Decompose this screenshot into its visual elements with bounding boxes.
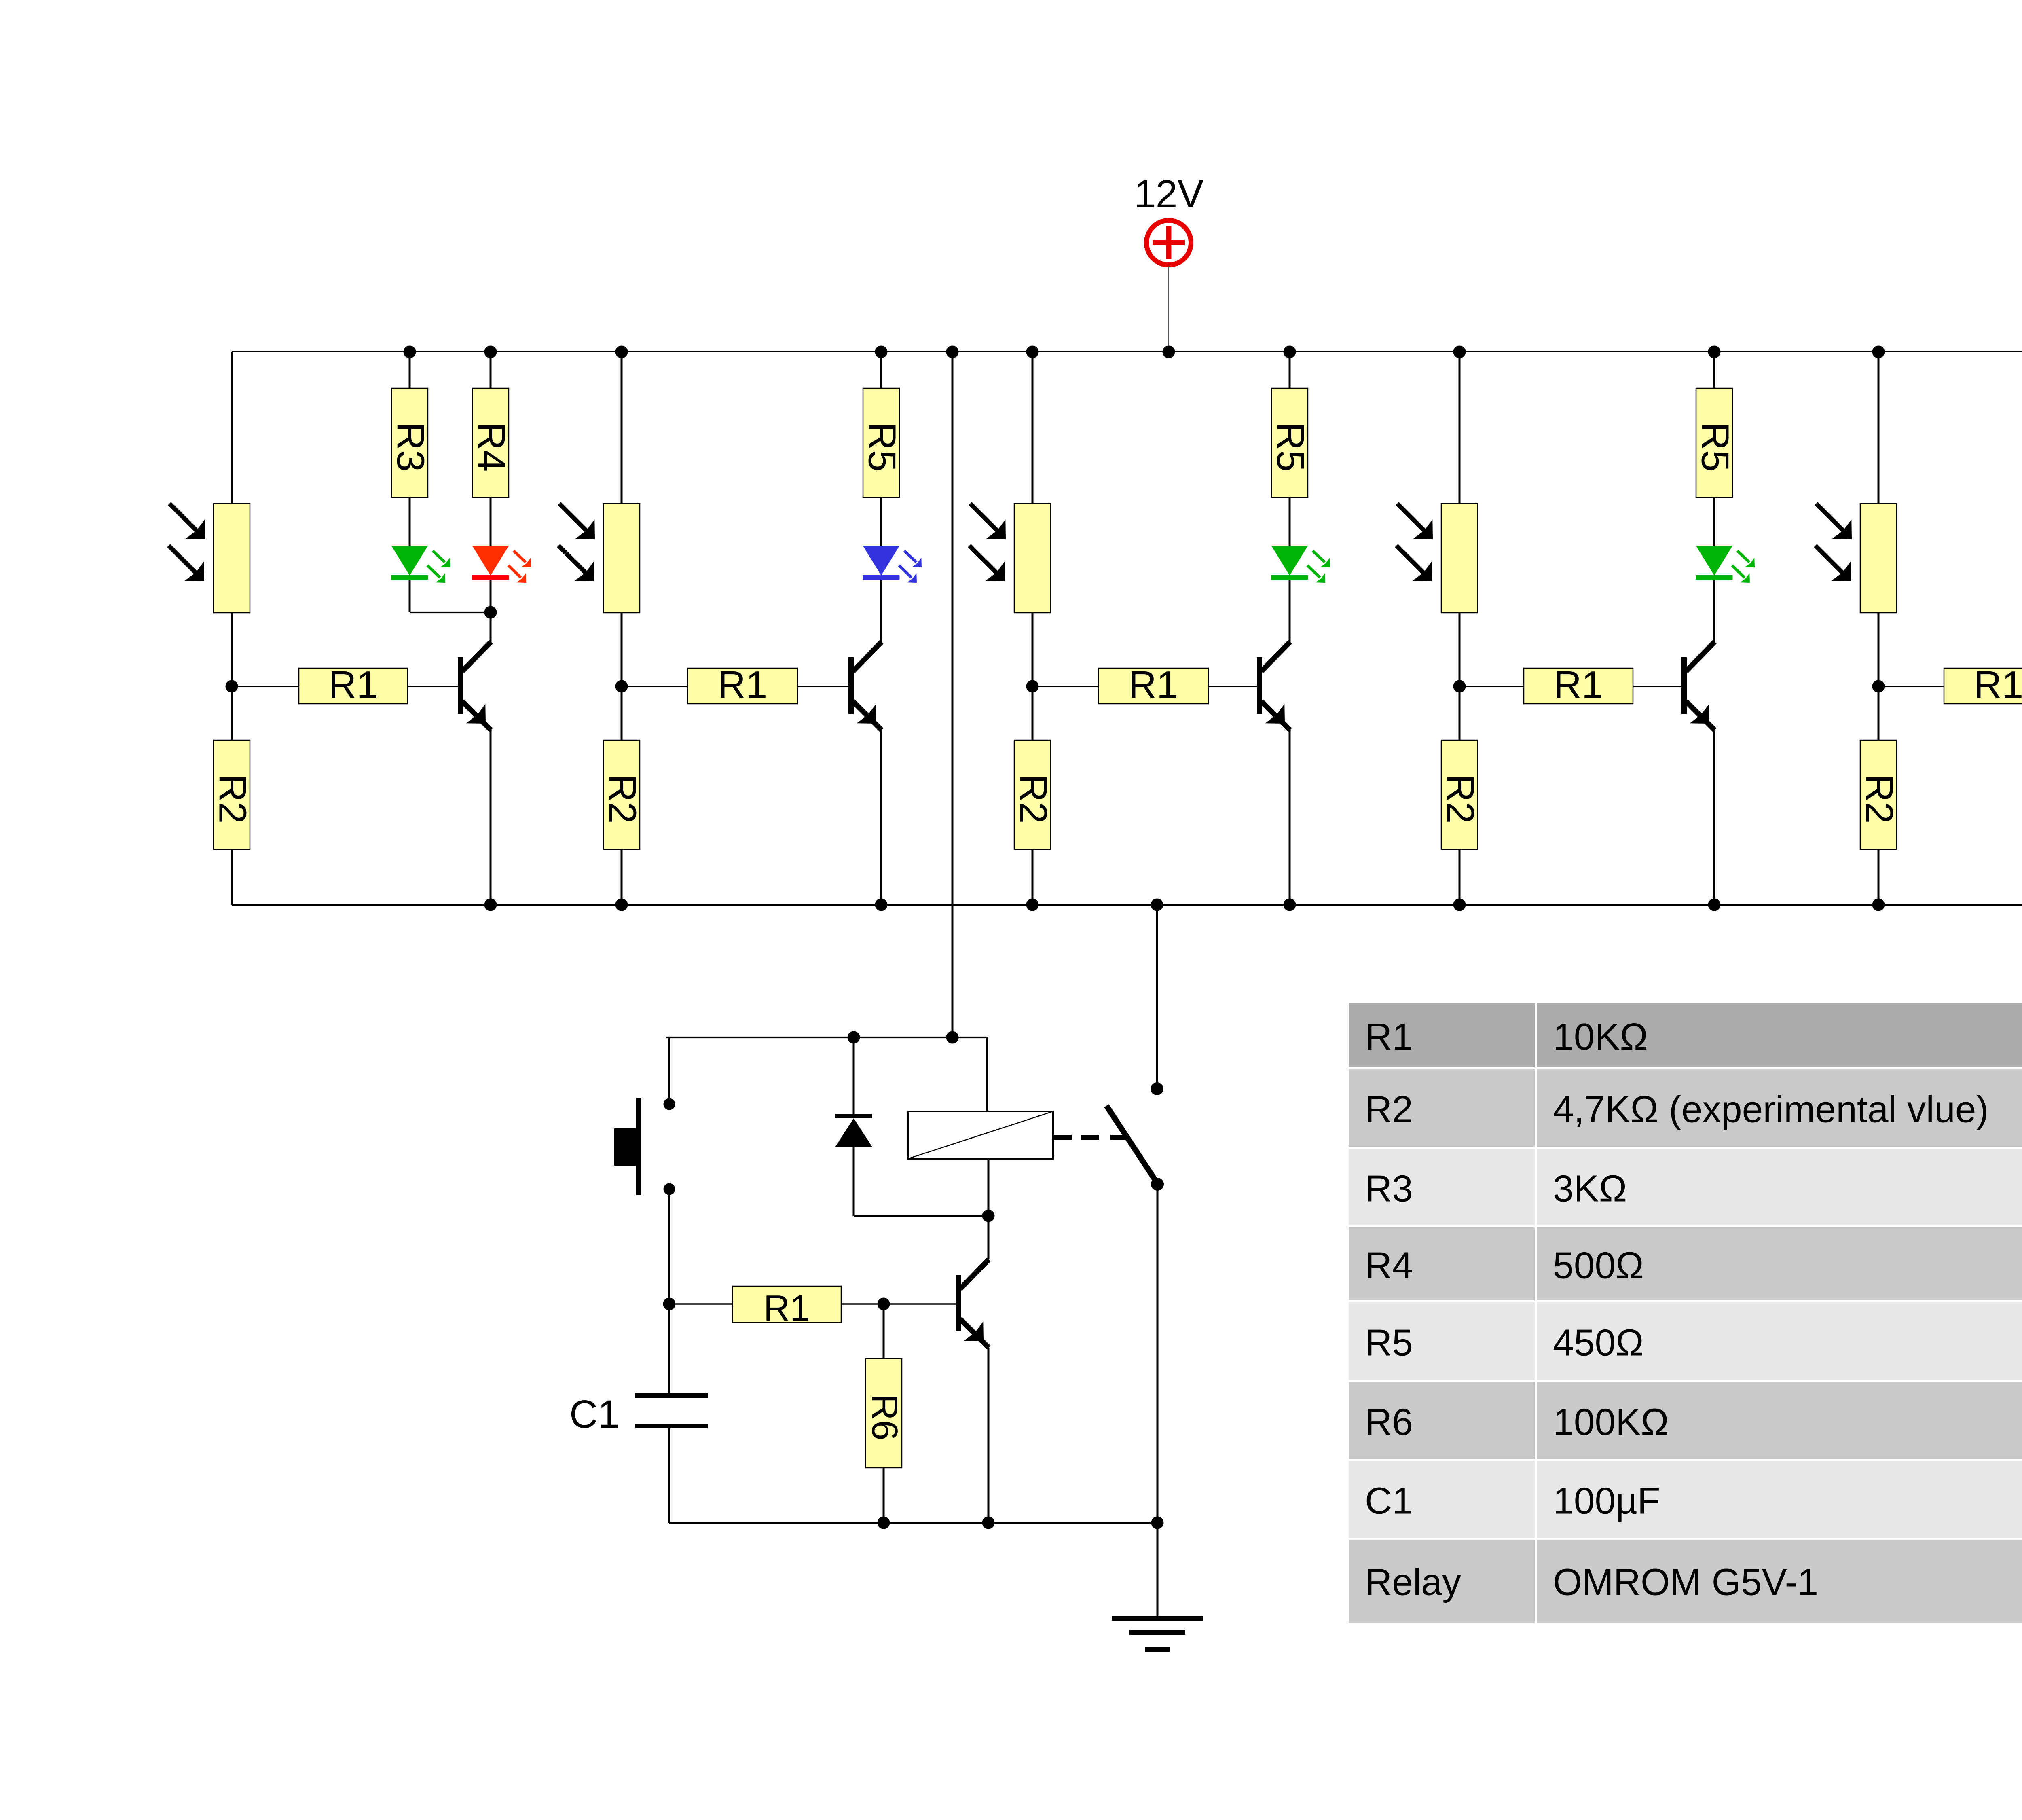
svg-text:4,7KΩ (experimental vlue): 4,7KΩ (experimental vlue) — [1553, 1088, 1989, 1130]
svg-text:R1: R1 — [718, 663, 768, 707]
junction 12V/rail — [1163, 346, 1175, 358]
resistor R1 (stage 4) — [1524, 663, 1633, 707]
node: divider tap stage 3 — [1026, 680, 1039, 693]
wire: LED cathode to collector (stage 3) — [1289, 580, 1291, 644]
transistor Q4 (NPN) — [1681, 642, 1715, 730]
wire: LDR4 to R2 (divider) — [1459, 613, 1461, 740]
wire: top wire corner down to relay coil — [986, 1037, 988, 1111]
node: contact lower terminal — [1151, 1178, 1164, 1191]
node: bottom rail / stage 3 divider — [1026, 899, 1039, 911]
node: bottom wire / ground — [1151, 1517, 1164, 1529]
svg-text:R6: R6 — [864, 1394, 905, 1440]
node: divider tap stage 5 — [1872, 680, 1885, 693]
svg-text:R1: R1 — [764, 1288, 810, 1329]
wire: R1 to transistor base (stage 4) — [1633, 686, 1681, 687]
wire: R2 to bottom rail (stage 1) — [231, 849, 233, 905]
svg-text:C1: C1 — [1365, 1480, 1413, 1522]
resistor R2 (stage 1) — [211, 740, 254, 849]
transistor Q6 (timer, NPN) — [956, 1259, 989, 1348]
wire: tap to R1 (stage 2) — [622, 686, 687, 687]
node: bottom rail / emitter (stage 2) — [875, 899, 888, 911]
table row R1 — [1349, 1003, 1535, 1067]
timer top wire — [666, 1037, 987, 1038]
svg-text:R1: R1 — [328, 663, 378, 707]
wire: tap to R1 (stage 3) — [1032, 686, 1098, 687]
svg-text:10KΩ: 10KΩ — [1553, 1016, 1648, 1058]
wire: bottom rail down to relay contact — [1156, 905, 1158, 1083]
node: diode branch — [848, 1031, 860, 1044]
wire: emitter to bottom wire (timer) — [988, 1348, 990, 1523]
photoresistor LDR1 — [169, 504, 250, 613]
node: coil / diode / collector — [982, 1210, 995, 1222]
wire: rail to LDR2 — [621, 352, 623, 504]
wire: node to collector — [490, 612, 492, 644]
wire: red LED cathode to node — [490, 580, 492, 612]
svg-text:450Ω: 450Ω — [1553, 1322, 1644, 1364]
wire: LDR1 to R2 (divider) — [231, 613, 233, 740]
svg-text:R4: R4 — [1365, 1244, 1413, 1287]
svg-text:R4: R4 — [470, 422, 513, 472]
node: bottom rail / emitter (stage 1) — [484, 899, 497, 911]
svg-text:3KΩ: 3KΩ — [1553, 1168, 1627, 1210]
svg-text:R2: R2 — [601, 774, 644, 824]
wire: rail to R4 — [490, 352, 492, 388]
node: base node / C1 column — [663, 1298, 676, 1310]
wire: diode to relay bottom node — [854, 1215, 988, 1217]
wire: R1 to transistor base (stage 3) — [1208, 686, 1257, 687]
flyback diode D6 — [835, 1037, 872, 1216]
push button S1 — [614, 1037, 675, 1195]
resistor R1 (stage 1) — [299, 663, 408, 707]
wire: R3 to green LED — [409, 497, 411, 546]
svg-text:R3: R3 — [389, 422, 432, 472]
ground symbol — [1112, 1523, 1203, 1649]
wire: R1 to base (timer) — [841, 1303, 956, 1304]
table row R6 — [1349, 1382, 1535, 1459]
wire: rail to LDR4 — [1459, 352, 1461, 504]
node: rail / R3 — [404, 346, 416, 358]
relay coil K1 — [908, 1111, 1053, 1159]
wire: emitter to bottom rail (stage 3) — [1289, 730, 1291, 905]
wire: button to base node — [668, 1192, 670, 1393]
node: bottom rail / stage 4 divider — [1453, 899, 1466, 911]
table row Relay — [1349, 1540, 1535, 1623]
wire: R5 to LED (stage 3) — [1289, 497, 1291, 546]
wire: rail to LDR1 — [231, 352, 233, 504]
node: rail / LDR5 — [1872, 346, 1885, 358]
wire: LED cathode to collector (stage 2) — [880, 580, 882, 644]
svg-text:100µF: 100µF — [1553, 1480, 1660, 1522]
wire: R2 to bottom rail (stage 2) — [621, 849, 623, 905]
wire: R2 to bottom rail (stage 5) — [1878, 849, 1880, 905]
node: bottom rail / emitter (stage 3) — [1284, 899, 1296, 911]
wire: R2 to bottom rail (stage 4) — [1459, 849, 1461, 905]
node: bottom rail / contact wire — [1151, 899, 1163, 911]
LED (stage 2) — [863, 546, 922, 583]
node: R6 / bottom wire — [878, 1517, 890, 1529]
svg-text:R1: R1 — [1365, 1016, 1413, 1058]
svg-text:R2: R2 — [1365, 1088, 1413, 1130]
svg-text:100KΩ: 100KΩ — [1553, 1401, 1669, 1443]
wire: R5 to LED (stage 2) — [880, 497, 882, 546]
resistor R2 (stage 3) — [1012, 740, 1055, 849]
wire: R4 to red LED — [490, 497, 492, 546]
node: rail / R5 (stage 3) — [1284, 346, 1296, 358]
resistor R2 (stage 2) — [601, 740, 644, 849]
node: bottom rail / stage 2 divider — [615, 899, 628, 911]
wire: R5 to LED (stage 4) — [1713, 497, 1715, 546]
node: rail / R5 (stage 4) — [1708, 346, 1721, 358]
LED D1 green — [391, 546, 451, 583]
capacitor C1 — [635, 1393, 708, 1428]
photoresistor LDR3 — [969, 504, 1051, 613]
resistor R6 — [864, 1359, 905, 1468]
transistor Q3 (NPN) — [1257, 642, 1290, 730]
wire: relay coil to collector node — [988, 1159, 990, 1259]
resistor R1 (stage 5) — [1944, 663, 2022, 707]
svg-text:C1: C1 — [569, 1392, 620, 1436]
node: bottom rail / emitter (stage 4) — [1708, 899, 1721, 911]
wire: rail to R3 — [409, 352, 411, 388]
node: rail / LDR3 — [1026, 346, 1039, 358]
table row R3 — [1349, 1149, 1535, 1225]
LED (stage 4) — [1696, 546, 1755, 583]
wire: supply rail down to timer circuit — [952, 352, 954, 1037]
svg-text:R1: R1 — [1974, 663, 2022, 707]
photoresistor LDR5 — [1815, 504, 1897, 613]
node: R6 tap — [878, 1298, 890, 1310]
svg-text:R1: R1 — [1129, 663, 1178, 707]
node: divider tap stage 1 — [226, 680, 238, 693]
wire: rail to R5 (stage 3) — [1289, 352, 1291, 388]
svg-text:OMROM G5V-1: OMROM G5V-1 — [1553, 1561, 1818, 1603]
wire: rail to LDR5 — [1878, 352, 1880, 504]
svg-text:500Ω: 500Ω — [1553, 1244, 1644, 1287]
svg-text:R5: R5 — [1269, 422, 1312, 472]
wire: emitter to bottom rail (stage 4) — [1713, 730, 1715, 905]
table row R5 — [1349, 1302, 1535, 1380]
wire: tap to R1 (stage 5) — [1878, 686, 1944, 687]
photoresistor LDR4 — [1396, 504, 1478, 613]
wire: LDR2 to R2 (divider) — [621, 613, 623, 740]
node: contact upper terminal — [1151, 1082, 1163, 1095]
node: LED cathodes / collector — [484, 606, 497, 619]
wire: LDR3 to R2 (divider) — [1032, 613, 1034, 740]
transistor Q2 (NPN) — [848, 642, 882, 730]
wire: LED cathode to collector (stage 4) — [1713, 580, 1715, 644]
svg-text:R6: R6 — [1365, 1401, 1413, 1443]
node: rail / timer feed — [946, 346, 959, 358]
svg-text:R5: R5 — [1365, 1322, 1413, 1364]
node: timer feed — [946, 1031, 959, 1044]
wire: contact to ground wire — [1157, 1184, 1159, 1523]
svg-text:12V: 12V — [1134, 172, 1204, 216]
photoresistor LDR2 — [558, 504, 640, 613]
wire: LDR5 to R2 (divider) — [1878, 613, 1880, 740]
wire: green LED cathode elbow to node — [409, 580, 411, 612]
svg-text:R5: R5 — [1694, 422, 1737, 472]
wire: C1 to bottom wire — [668, 1428, 670, 1523]
wire: tap down to R6 — [883, 1304, 885, 1359]
resistor R5 (stage 3) — [1269, 388, 1312, 497]
resistor R3 — [389, 388, 432, 497]
wire: rail to R5 (stage 4) — [1713, 352, 1715, 388]
resistor R5 (stage 2) — [861, 388, 904, 497]
svg-text:R2: R2 — [211, 774, 254, 824]
svg-text:Relay: Relay — [1365, 1561, 1461, 1603]
node: rail / R4 — [484, 346, 497, 358]
relay contact arm — [1106, 1106, 1157, 1183]
wire: R2 to bottom rail (stage 3) — [1032, 849, 1034, 905]
node: rail / R5 (stage 2) — [875, 346, 888, 358]
resistor R1 (timer) — [732, 1286, 841, 1329]
timer bottom wire — [669, 1522, 1157, 1524]
svg-text:R1: R1 — [1554, 663, 1603, 707]
wire: R1 to transistor base (stage 2) — [797, 686, 848, 687]
resistor R2 (stage 5) — [1858, 740, 1901, 849]
node: rail / LDR2 — [615, 346, 628, 358]
wire: rail to LDR3 — [1032, 352, 1034, 504]
resistor R5 (stage 4) — [1694, 388, 1737, 497]
node: rail / LDR4 — [1453, 346, 1466, 358]
resistor R1 (stage 3) — [1098, 663, 1208, 707]
wire: tap to R1 (stage 1) — [232, 686, 299, 687]
wire 12V to rail — [1168, 266, 1169, 352]
12V supply symbol (circle with plus) — [1146, 220, 1191, 265]
svg-text:R2: R2 — [1858, 774, 1901, 824]
top supply rail (+12V bus) — [232, 351, 2022, 352]
node: divider tap stage 2 — [615, 680, 628, 693]
relay actuation dashed link — [1053, 1135, 1072, 1140]
svg-text:R2: R2 — [1012, 774, 1055, 824]
table row R2 — [1349, 1069, 1535, 1147]
wire: rail to R5 (stage 2) — [880, 352, 882, 388]
wire: emitter to bottom rail (stage 1) — [490, 730, 492, 905]
svg-text:R3: R3 — [1365, 1168, 1413, 1210]
svg-text:R5: R5 — [861, 422, 904, 472]
component value table — [1349, 1003, 2022, 1623]
node: bottom rail / stage 5 divider — [1872, 899, 1885, 911]
svg-text:R2: R2 — [1439, 774, 1482, 824]
resistor R2 (stage 4) — [1439, 740, 1482, 849]
table row R4 — [1349, 1227, 1535, 1300]
node: divider tap stage 4 — [1453, 680, 1466, 693]
node: emitter / bottom wire — [982, 1517, 995, 1529]
wire: base node to R1 (timer) — [669, 1303, 732, 1304]
table row C1 — [1349, 1461, 1535, 1538]
resistor R1 (stage 2) — [687, 663, 797, 707]
LED (stage 3) — [1271, 546, 1330, 583]
bottom ground-side rail — [232, 904, 2022, 906]
wire: emitter to bottom rail (stage 2) — [880, 730, 882, 905]
wire: tap to R1 (stage 4) — [1459, 686, 1524, 687]
wire: R6 to bottom wire — [883, 1468, 885, 1523]
transistor Q1 (NPN) — [458, 642, 491, 730]
LED D2 red — [472, 546, 531, 583]
resistor R4 — [470, 388, 513, 497]
wire: R1 to transistor base (stage 1) — [408, 686, 458, 687]
